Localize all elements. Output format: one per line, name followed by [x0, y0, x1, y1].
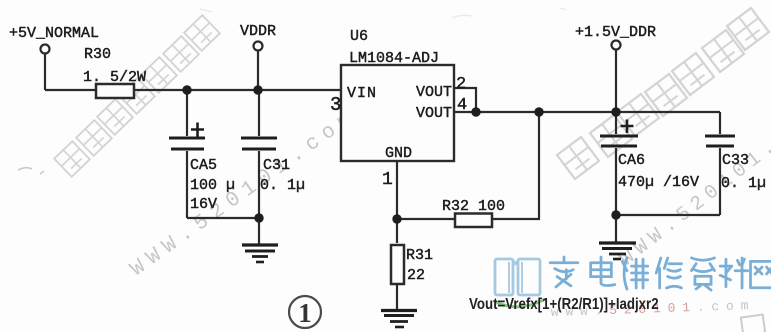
svg-text:VDDR: VDDR: [240, 23, 276, 40]
svg-text:R32 100: R32 100: [442, 198, 505, 215]
svg-text:4: 4: [457, 96, 467, 115]
junction node GND/R31/R32: [392, 214, 401, 223]
svg-text:2: 2: [456, 75, 466, 94]
wire R30 to U6 pin 3: [134, 89, 341, 91]
svg-text:C33: C33: [722, 152, 749, 169]
ground below R31: [381, 311, 417, 328]
svg-text:22: 22: [407, 267, 425, 284]
wire ground stub below CA6: [615, 215, 617, 242]
capacitor CA6 plates: [600, 136, 638, 146]
svg-text:GND: GND: [385, 145, 412, 162]
scan smudge left edge: [18, 168, 44, 174]
svg-text:0. 1µ: 0. 1µ: [260, 177, 305, 194]
junction node VDDR/C31: [253, 85, 262, 94]
wire from +5V terminal down: [44, 54, 46, 91]
ground below C31: [242, 245, 278, 262]
svg-text:100 µ: 100 µ: [190, 177, 235, 194]
junction node CA6/C33 ground: [611, 210, 620, 219]
wire CA6 to C33 bottom: [616, 214, 720, 216]
node +1.5V_DDR terminal: [612, 41, 621, 50]
logo text (stylized): [550, 257, 771, 290]
junction node CA5/C31 ground: [254, 213, 263, 222]
svg-text:VIN: VIN: [347, 85, 377, 102]
junction node R32/output: [534, 107, 543, 116]
junction node R30/CA5: [182, 85, 191, 94]
wire C33 top: [719, 112, 721, 134]
wire +1.5V_DDR down: [615, 50, 617, 113]
svg-text:R31: R31: [406, 247, 433, 264]
wire +5V to R30: [45, 89, 96, 91]
node +5V_NORMAL terminal: [41, 45, 50, 54]
resistor R31: [391, 245, 404, 284]
junction node +1.5V/CA6: [611, 107, 620, 116]
wire R32 right up to output: [492, 112, 539, 219]
svg-text:16V: 16V: [190, 196, 217, 213]
svg-text:VOUT: VOUT: [416, 84, 452, 101]
logo char wang: [751, 261, 771, 287]
logo char dian: [591, 257, 615, 286]
logo char jia: [550, 257, 578, 287]
svg-text:R30: R30: [84, 46, 111, 63]
wire CA6 top: [615, 112, 617, 134]
svg-text:1. 5/2W: 1. 5/2W: [83, 69, 146, 86]
svg-text:U6: U6: [350, 28, 368, 45]
svg-text:WWW.520101.com: WWW.520101.com: [127, 104, 363, 281]
watermark partial char bottom-right corner: [741, 315, 765, 332]
svg-text:CA5: CA5: [190, 157, 217, 174]
wire R31 to ground: [396, 284, 398, 309]
svg-text:+1.5V_DDR: +1.5V_DDR: [575, 24, 656, 41]
wire C31 bottom: [258, 151, 260, 218]
logo char zi: [692, 258, 715, 290]
node VDDR terminal: [254, 42, 263, 51]
op-amp U6 body: [341, 65, 454, 161]
svg-text:CA6: CA6: [618, 152, 645, 169]
logo book icon: [495, 259, 540, 295]
wire CA5 to ground node: [187, 217, 259, 219]
svg-text:0. 1µ: 0. 1µ: [721, 175, 766, 192]
svg-text:+5V_NORMAL: +5V_NORMAL: [9, 25, 99, 42]
wire ground stub below C31: [258, 218, 260, 244]
capacitor C31 plates: [241, 138, 277, 149]
wire C31 top: [258, 90, 260, 136]
svg-text:470µ /16V: 470µ /16V: [618, 174, 699, 191]
scan smudge top: [200, 8, 566, 18]
wire C33 bottom: [719, 148, 721, 215]
logo char liao: [720, 258, 748, 288]
logo char xiu: [656, 258, 681, 288]
wire U6 pin 2: [454, 88, 476, 112]
resistor R30: [96, 84, 134, 98]
logo char wei: [622, 258, 647, 289]
formula Vout=Vrefx[1+(R2/R1)]+Iadjxr2: [469, 296, 659, 313]
resistor R32: [455, 214, 492, 228]
logo green swoosh: [495, 299, 545, 307]
svg-text:3: 3: [330, 94, 341, 116]
watermark Chinese line top-left: [54, 15, 220, 177]
wire CA5 bottom: [186, 151, 188, 218]
capacitor C33 plates: [705, 136, 735, 146]
wire VDDR down: [257, 51, 259, 91]
svg-text:1: 1: [382, 170, 393, 190]
svg-text:VOUT: VOUT: [416, 105, 452, 122]
wire U6 pin 1 down: [396, 161, 398, 243]
capacitor CA6 polarity plus: [621, 120, 634, 134]
wire CA6 bottom: [615, 148, 617, 215]
svg-text:Vout=Vrefx[1+(R2/R1)]+Iadjxr2: Vout=Vrefx[1+(R2/R1)]+Iadjxr2: [469, 296, 659, 313]
wire U6 pin 4 output: [454, 111, 720, 113]
ground below CA6: [599, 243, 636, 259]
svg-text:C31: C31: [263, 157, 290, 174]
capacitor CA5 polarity plus: [191, 123, 204, 137]
wire CA5 top: [186, 90, 188, 136]
wire R32 left: [397, 218, 455, 220]
capacitor CA5 plates: [169, 138, 205, 149]
svg-text:1: 1: [298, 298, 312, 328]
junction node pin2/pin4: [471, 107, 480, 116]
svg-text:LM1084-ADJ: LM1084-ADJ: [349, 50, 439, 67]
schematic sheet number 1 circled: [289, 296, 321, 328]
watermark Chinese line top-right: [557, 8, 769, 179]
